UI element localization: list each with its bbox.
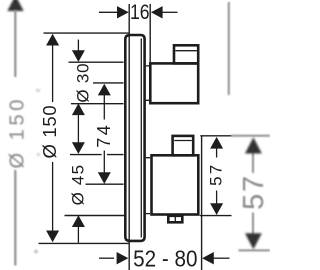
dim O30: top extension line xyxy=(69,61,124,63)
dim O150: line upper segment xyxy=(52,44,54,102)
dim 16: right extension line xyxy=(149,4,151,62)
dim 52-80: left arrowhead (right-pointing) xyxy=(117,252,129,264)
dim 16: left leader xyxy=(99,11,118,13)
plate front inner contour line xyxy=(140,39,142,238)
upper cap inner line xyxy=(175,50,197,52)
dim 74: upper shaft xyxy=(103,94,105,119)
faded dot xyxy=(34,250,38,254)
lower collar inner line xyxy=(174,140,192,142)
upper knob cap xyxy=(174,45,198,63)
dim 57: top arrowhead (up) xyxy=(210,137,223,149)
faded O150 line lower segment xyxy=(14,170,16,266)
faded plate line xyxy=(228,2,230,95)
faded O150 arrow (up) xyxy=(7,0,23,11)
dim 52-80: left leader xyxy=(99,257,114,259)
svg-text:57: 57 xyxy=(206,163,225,186)
upper knob body xyxy=(150,63,198,103)
faded 57 down arrowhead xyxy=(245,233,262,249)
dim O30: bottom extension line xyxy=(71,103,124,105)
dim 57: bottom arrowhead (down) xyxy=(210,203,223,215)
dim 74: upper centerline extension xyxy=(93,82,124,84)
faded 57 lower shaft xyxy=(252,213,254,236)
wire: wall / extension vertical line behind plate xyxy=(128,4,130,270)
svg-text:74: 74 xyxy=(94,123,114,148)
dim 74: bottom arrowhead (down) xyxy=(98,172,111,184)
svg-text:16: 16 xyxy=(130,1,150,25)
lower neck xyxy=(146,158,150,214)
dim O150: bottom extension line xyxy=(39,242,129,244)
escutcheon plate back rim xyxy=(125,35,129,240)
dim 57: upper shaft xyxy=(216,148,218,158)
faded smudge mid xyxy=(37,153,41,157)
dim O45: top arrowhead (down) xyxy=(72,142,85,154)
dim O30: top arrowhead (down) xyxy=(72,50,85,62)
faded adjacent drawing, left side xyxy=(7,0,23,11)
faded 57 bottom extension xyxy=(239,249,271,251)
dim 52-80: right arrowhead (left-pointing) xyxy=(202,252,214,264)
dim 16: left arrowhead xyxy=(117,6,129,18)
svg-text:Ø 30: Ø 30 xyxy=(73,63,92,103)
dim O45: bottom extension line (knob bottom) xyxy=(65,215,126,217)
faded smudge upper xyxy=(36,89,41,93)
faded 57 up arrowhead xyxy=(245,137,262,153)
dim O150: bottom arrowhead xyxy=(46,231,59,243)
lower knob body xyxy=(152,155,199,214)
faded O150 line upper segment xyxy=(14,10,16,77)
dim O150: top arrowhead xyxy=(46,34,59,46)
dim O45: top extension line (lower knob top) xyxy=(70,154,124,156)
faded adjacent drawing, right side xyxy=(229,2,270,250)
svg-text:52 - 80: 52 - 80 xyxy=(133,245,197,270)
dim O45: bottom arrowhead (up) xyxy=(72,215,85,227)
dim 74: lower centerline extension xyxy=(86,183,124,185)
dim 74: top arrowhead (up) xyxy=(98,84,111,96)
dim 57: lower shaft xyxy=(216,191,218,205)
lower collar xyxy=(173,136,194,155)
dim 16: right arrowhead xyxy=(151,6,163,18)
wire: shaft between O30 and O45 arrows xyxy=(77,114,79,144)
dim 16: right leader xyxy=(162,11,177,13)
dim O30: bottom arrowhead (up) xyxy=(72,103,85,115)
dim O30: top shaft xyxy=(77,40,79,52)
tab divider xyxy=(174,216,176,223)
escutcheon plate outline xyxy=(129,35,145,241)
svg-text:Ø 150: Ø 150 xyxy=(39,105,60,159)
dim 52-80: right leader xyxy=(214,257,230,259)
faded 57 upper shaft xyxy=(252,151,254,173)
svg-text:57: 57 xyxy=(238,174,270,210)
dim 74: lower shaft xyxy=(103,151,105,174)
faded 57 top extension xyxy=(231,135,270,137)
wire: shaft below O45 bottom arrow xyxy=(77,226,79,243)
upper neck xyxy=(146,66,150,100)
dim 57: top extension line xyxy=(200,135,231,137)
tab under lower knob xyxy=(168,216,182,223)
svg-text:Ø 150: Ø 150 xyxy=(6,96,28,168)
dim O150: line lower segment xyxy=(52,162,54,232)
dim O150: top extension line xyxy=(44,32,129,34)
svg-text:Ø 45: Ø 45 xyxy=(69,164,88,206)
dim 52-80: right extension vertical xyxy=(201,137,203,270)
dim 57: bottom extension line xyxy=(200,215,232,217)
